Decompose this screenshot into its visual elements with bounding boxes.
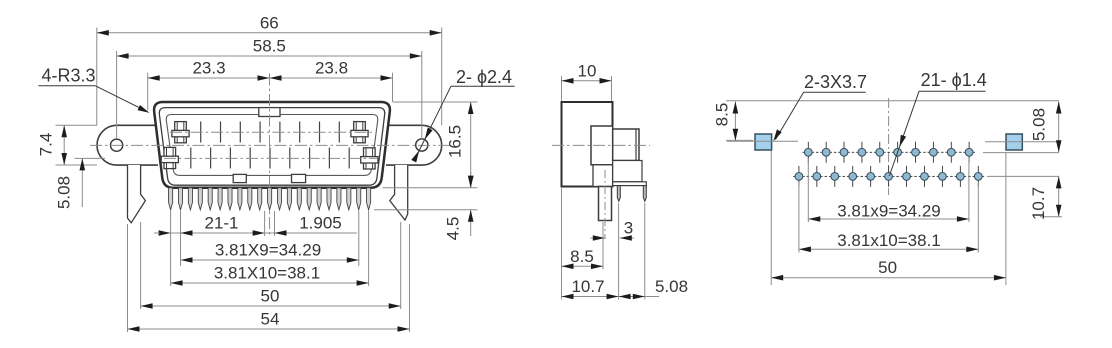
- pin pitch extension lines: [170, 211, 172, 286]
- svg-text:5.08: 5.08: [1030, 108, 1049, 141]
- side view extension lines bottom: [561, 188, 563, 300]
- svg-text:54: 54: [261, 309, 280, 328]
- svg-text:10.7: 10.7: [571, 277, 604, 296]
- dim 7.4 extension lines: [56, 124, 98, 126]
- svg-text:3.81x9=34.29: 3.81x9=34.29: [837, 202, 941, 221]
- upper contact ticks: [201, 122, 340, 143]
- row 1 holes (10x phi1.4): [803, 142, 975, 163]
- side view terminal shelf: [613, 182, 647, 186]
- dim 50: [141, 305, 401, 307]
- solder pins row (21 pins): [169, 188, 371, 210]
- lower contact ticks: [191, 148, 349, 169]
- dim 1.905 arrows: [253, 230, 265, 236]
- dim 5.08 footprint: [1058, 102, 1060, 153]
- svg-text:8.5: 8.5: [713, 103, 732, 127]
- dim 3: [591, 237, 605, 239]
- footprint row1 line right: [983, 152, 1059, 154]
- left mounting ear: [97, 125, 158, 165]
- side view latch lower block: [593, 165, 613, 187]
- latch clip lower-left: [161, 147, 178, 168]
- dim 50 extension lines: [140, 222, 142, 309]
- svg-text:2-3X3.7: 2-3X3.7: [804, 72, 867, 92]
- right mounting square 3X3.7: [1006, 134, 1022, 150]
- upper contact row centerline: [170, 131, 372, 133]
- right mounting ear: [386, 125, 442, 165]
- svg-text:10: 10: [578, 61, 597, 80]
- front view horizontal centerline: [90, 144, 450, 146]
- bottom tab left: [233, 174, 246, 182]
- svg-text:10.7: 10.7: [1029, 187, 1048, 220]
- dim 50 footprint: [771, 277, 1006, 279]
- lower contact row centerline: [164, 157, 378, 159]
- front view vertical centerline: [269, 74, 271, 237]
- side view insulator body: [613, 129, 639, 161]
- dim 23.8: [270, 77, 393, 79]
- dim 3.81X10=38.1: [171, 282, 369, 284]
- footprint vertical centerline: [888, 98, 890, 195]
- side view latch block: [591, 126, 613, 165]
- svg-text:23.8: 23.8: [315, 59, 348, 78]
- dim 3.81x10=38.1 footprint: [799, 248, 978, 250]
- svg-text:50: 50: [261, 287, 280, 306]
- svg-text:1.905: 1.905: [299, 214, 342, 233]
- dim 16.5: [470, 102, 472, 188]
- dim 58.5: [117, 55, 422, 57]
- dim 10: [562, 80, 612, 82]
- dim 10 extension lines: [561, 76, 563, 101]
- dim 5.08 left: [81, 158, 83, 207]
- svg-text:4.5: 4.5: [444, 217, 463, 241]
- dim 10.7 footprint: [1058, 176, 1060, 216]
- left ear hole: [111, 139, 123, 151]
- footprint top reference line: [726, 100, 1059, 102]
- svg-text:21-1: 21-1: [204, 214, 238, 233]
- dim 21-1 / 1.905 line: [154, 232, 357, 234]
- dim 8.5 footprint ext: [726, 139, 753, 141]
- shell outer outline: [154, 102, 390, 188]
- svg-text:7.4: 7.4: [37, 133, 56, 157]
- right board-lock leg: [390, 165, 408, 220]
- side view insulator inner edge: [635, 129, 637, 161]
- latch clip upper-left: [172, 122, 189, 143]
- dim 3.81X9=34.29: [181, 259, 359, 261]
- side view flange: [562, 102, 613, 187]
- insulator cavity outline: [166, 115, 378, 176]
- svg-text:5.08: 5.08: [55, 176, 74, 209]
- svg-text:50: 50: [878, 258, 897, 277]
- dim 23.3/23.8 extension lines: [147, 73, 149, 110]
- dim 7.4: [63, 125, 65, 165]
- footprint square centerline right: [985, 141, 1059, 143]
- svg-text:3.81X10=38.1: 3.81X10=38.1: [214, 264, 320, 283]
- svg-text:8.5: 8.5: [570, 247, 594, 266]
- dim 10.7 side: [562, 296, 619, 298]
- dim 5.08 side: [619, 296, 645, 298]
- left board-lock leg: [128, 165, 146, 223]
- row 2 holes (11x phi1.4): [793, 166, 984, 187]
- dim 8.5 footprint: [734, 102, 736, 141]
- dim 66 extension lines: [96, 28, 98, 126]
- dim 5.08 extension line: [75, 157, 106, 159]
- svg-text:58.5: 58.5: [253, 37, 286, 56]
- svg-text:16.5: 16.5: [446, 125, 465, 158]
- svg-text:23.3: 23.3: [192, 59, 225, 78]
- svg-text:2- ϕ2.4: 2- ϕ2.4: [456, 67, 512, 87]
- dim 16.5 extension lines: [393, 101, 478, 103]
- svg-text:3: 3: [624, 219, 633, 238]
- dim 3.81x9=34.29 footprint: [808, 218, 969, 220]
- dim 4.5 extension line: [374, 209, 478, 211]
- dim 54 extension lines: [127, 224, 129, 332]
- svg-text:3.81X9=34.29: 3.81X9=34.29: [215, 241, 321, 260]
- dim 54: [128, 328, 410, 330]
- dim 66: [97, 32, 442, 34]
- right ear hole: [416, 139, 428, 151]
- top polarization notch: [259, 108, 280, 117]
- side view board-lock leg: [599, 187, 612, 221]
- svg-text:4-R3.3: 4-R3.3: [41, 66, 95, 86]
- side view pin row2: [643, 186, 646, 202]
- bottom tab right: [292, 174, 306, 182]
- dim 8.5 side: [562, 265, 604, 267]
- latch clip lower-right: [361, 148, 378, 169]
- shell middle outline: [159, 108, 384, 186]
- svg-text:5.08: 5.08: [655, 277, 688, 296]
- dim 4.5: [470, 172, 472, 188]
- svg-text:66: 66: [260, 13, 279, 32]
- side view rear housing: [613, 161, 642, 182]
- dim 23.3: [148, 77, 270, 79]
- dim 21-1 arrows: [159, 230, 171, 236]
- dim 58.5 extension lines: [116, 51, 118, 139]
- svg-text:21- ϕ1.4: 21- ϕ1.4: [921, 70, 987, 90]
- side view pin row1: [617, 186, 620, 202]
- footprint dim extension lines: [807, 158, 809, 222]
- left mounting square 3X3.7: [755, 134, 772, 150]
- footprint row2 line right: [987, 175, 1059, 177]
- side view horizontal centerline: [552, 144, 650, 146]
- footprint square centerline left: [727, 140, 798, 142]
- svg-text:3.81x10=38.1: 3.81x10=38.1: [837, 231, 941, 250]
- latch clip upper-right: [351, 122, 368, 143]
- side view leg centerline: [604, 170, 606, 239]
